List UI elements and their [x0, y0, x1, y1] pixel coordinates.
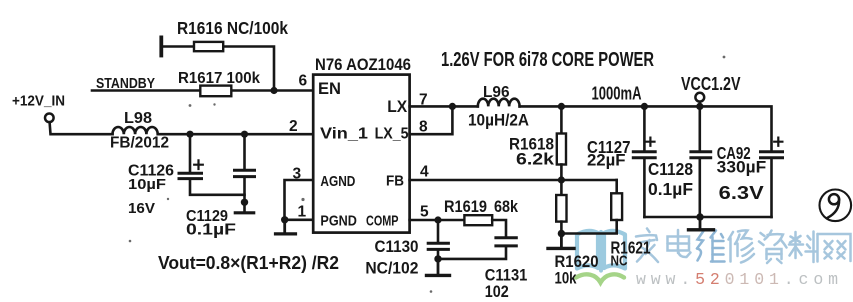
- junction node C1129: [241, 131, 248, 138]
- junction dot C1127 top: [641, 103, 648, 110]
- junction dot VCC: [696, 103, 703, 110]
- resistor R1618: [557, 106, 566, 180]
- wire from +12V_IN: [50, 122, 313, 134]
- svg-text:AGND: AGND: [320, 173, 355, 190]
- svg-text:Vout=0.8×(R1+R2) /R2: Vout=0.8×(R1+R2) /R2: [158, 252, 339, 273]
- svg-text:C1130: C1130: [375, 237, 419, 256]
- plus sign C1127: [646, 138, 654, 146]
- svg-text:R1620: R1620: [555, 253, 599, 271]
- svg-text:5: 5: [420, 204, 429, 221]
- junction dot R1618 top: [558, 103, 565, 110]
- svg-text:10k: 10k: [555, 270, 578, 288]
- svg-text:NC/102: NC/102: [365, 259, 418, 278]
- svg-text:10µF: 10µF: [128, 176, 166, 193]
- wire top rail to CA92: [520, 106, 772, 150]
- resistor R1620: [556, 180, 566, 234]
- svg-text:6.2k: 6.2k: [516, 150, 555, 169]
- ground C1129: [235, 211, 253, 214]
- svg-text:102: 102: [485, 282, 509, 301]
- svg-text:VCC1.2V: VCC1.2V: [681, 74, 741, 94]
- wire LX_5 pin8: [410, 106, 453, 134]
- circled 9 page marker: [820, 190, 852, 222]
- watermark hanzi wang: [818, 234, 851, 262]
- capacitor C1129: [235, 134, 255, 211]
- wire FB pin4 net: [410, 179, 617, 182]
- junction dot C1129 bottom: [241, 199, 248, 206]
- svg-text:www.520101.com: www.520101.com: [636, 270, 838, 289]
- junction dot ground rail: [696, 213, 703, 220]
- svg-text:EN: EN: [318, 80, 341, 98]
- svg-text:R1617 100k: R1617 100k: [178, 70, 260, 87]
- svg-text:+12V_IN: +12V_IN: [12, 94, 65, 110]
- svg-text:FB/2012: FB/2012: [110, 135, 169, 152]
- junction dot R1617/R1616 to pin6: [270, 87, 277, 94]
- watermark book icon: [577, 231, 625, 271]
- junction dot COMP: [434, 216, 441, 223]
- resistor R1616 leads: [163, 47, 274, 91]
- svg-text:0.1µF: 0.1µF: [648, 179, 693, 199]
- watermark hanzi liao: [789, 232, 817, 263]
- capacitor C1131: [438, 238, 516, 259]
- svg-text:68k: 68k: [494, 198, 519, 216]
- resistor R1621: [561, 180, 622, 234]
- svg-text:1.26V FOR 6i78 CORE POWER: 1.26V FOR 6i78 CORE POWER: [441, 49, 654, 71]
- svg-text:3: 3: [293, 166, 302, 183]
- svg-text:PGND: PGND: [320, 213, 357, 230]
- plus sign C1126: [194, 160, 203, 169]
- capacitor C1130: [428, 220, 448, 259]
- wire COMP pin5: [410, 219, 465, 222]
- capacitor C1127: [633, 106, 655, 217]
- svg-text:C1128: C1128: [648, 159, 693, 179]
- capacitor CA92: [761, 152, 783, 217]
- svg-text:LX: LX: [387, 97, 408, 116]
- node +12V_IN terminal: [45, 114, 54, 123]
- capacitor C1126: [179, 134, 245, 195]
- speck noise dots: [129, 56, 726, 293]
- svg-text:4: 4: [420, 164, 429, 181]
- junction dot PGND: [281, 216, 288, 223]
- watermark hanzi wei: [697, 231, 725, 262]
- resistor R1617: [200, 86, 231, 97]
- svg-text:6: 6: [299, 73, 308, 90]
- watermark hanzi xiu: [729, 230, 755, 262]
- watermark hanzi zi: [759, 231, 787, 264]
- svg-text:7: 7: [419, 92, 428, 109]
- resistor R1619: [464, 215, 506, 236]
- wire bottom ground rail: [644, 216, 771, 219]
- svg-text:2: 2: [289, 118, 298, 135]
- wire LX pin7: [410, 105, 478, 108]
- op-amp U1 IC N76 AOZ1046 box: [313, 75, 409, 233]
- ground output caps: [689, 217, 714, 230]
- WATERMARK: [576, 229, 851, 290]
- node VCC1.2V terminal: [695, 93, 704, 107]
- svg-text:L98: L98: [124, 110, 152, 127]
- inductor L96: [478, 99, 520, 107]
- svg-text:N76 AOZ1046: N76 AOZ1046: [315, 56, 411, 74]
- svg-text:L96: L96: [483, 84, 510, 101]
- junction dot pin7/pin8: [449, 103, 456, 110]
- svg-text:16V: 16V: [128, 200, 155, 217]
- inductor L98: [113, 127, 158, 134]
- watermark hanzi dian: [668, 230, 691, 257]
- svg-text:0.1µF: 0.1µF: [186, 222, 236, 239]
- ground PGND: [276, 220, 296, 234]
- svg-text:1000mA: 1000mA: [592, 84, 642, 104]
- svg-text:22µF: 22µF: [587, 151, 626, 170]
- node STANDBY wire (pin 6 net): [92, 89, 313, 92]
- svg-text:1: 1: [298, 204, 307, 221]
- junction dot R1620 bottom: [558, 230, 565, 237]
- junction dot C1130 bottom: [434, 255, 441, 262]
- junction dot FB: [558, 176, 565, 183]
- svg-text:330µF: 330µF: [717, 158, 767, 177]
- svg-text:Vin_1: Vin_1: [320, 126, 368, 143]
- ground R1620: [548, 234, 574, 249]
- svg-text:NC: NC: [611, 253, 628, 270]
- resistor R1616 terminal bar: [159, 37, 163, 55]
- svg-text:R1619: R1619: [444, 198, 487, 216]
- svg-text:COMP: COMP: [366, 213, 399, 230]
- junction node C1126: [186, 131, 193, 138]
- watermark hanzi jia: [636, 229, 658, 263]
- capacitor C1128: [691, 106, 711, 217]
- watermark green swoosh: [576, 274, 624, 282]
- ground COMP net: [427, 259, 450, 276]
- svg-text:R1616 NC/100k: R1616 NC/100k: [177, 18, 288, 38]
- svg-text:8: 8: [419, 119, 428, 136]
- svg-text:LX_5: LX_5: [375, 126, 409, 143]
- resistor R1616 body: [194, 42, 223, 51]
- plus sign CA92: [774, 138, 782, 146]
- svg-text:FB: FB: [386, 173, 404, 190]
- svg-text:6.3V: 6.3V: [719, 183, 764, 203]
- wire AGND pin3: [285, 180, 314, 220]
- svg-text:STANDBY: STANDBY: [96, 75, 155, 92]
- svg-text:10µH/2A: 10µH/2A: [468, 111, 529, 130]
